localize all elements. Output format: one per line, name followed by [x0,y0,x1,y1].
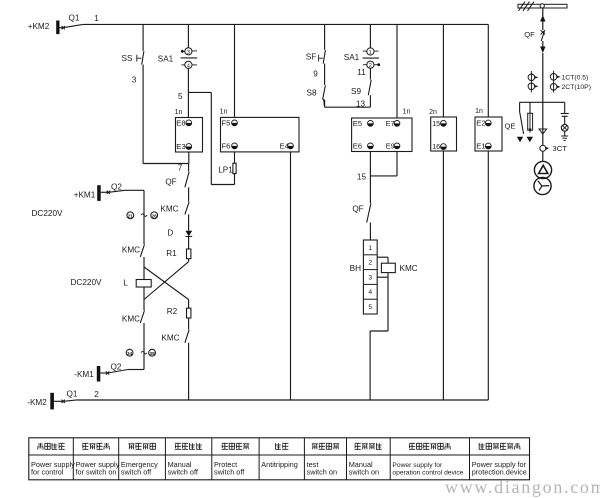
svg-text:28: 28 [152,213,158,218]
svg-text:3: 3 [132,76,137,85]
svg-text:E2: E2 [476,119,485,128]
table header col8 [355,443,361,450]
svg-text:SF: SF [306,52,316,61]
svg-text:-KM1: -KM1 [74,370,94,379]
table header col9 [409,443,415,450]
svg-text:3: 3 [368,274,372,281]
wire E7 to bus [396,24,398,118]
wire SA1 branch [187,24,189,47]
svg-text:E8: E8 [176,119,185,128]
svg-text:Power supply for: Power supply for [392,462,443,469]
svg-text:switch off: switch off [214,468,245,477]
svg-text:DC220V: DC220V [32,209,63,218]
svg-text:switch off: switch off [168,468,199,477]
wire node 7 down [188,164,190,172]
feeder wire [542,8,544,16]
table header col5 [222,443,228,450]
svg-text:E1: E1 [476,142,485,151]
svg-text:5: 5 [368,304,372,311]
svg-text:KMC: KMC [161,333,179,342]
svg-text:7: 7 [178,163,183,172]
svg-text:SS: SS [122,54,133,63]
svg-text:2: 2 [369,63,372,69]
wire 2n branch [442,24,444,117]
svg-text:+KM2: +KM2 [28,22,50,31]
svg-text:1: 1 [368,245,372,252]
svg-text:QE: QE [505,122,516,131]
plug terminals 34-38 [126,349,133,356]
svg-text:2n: 2n [429,109,437,116]
CT pair left [530,71,532,92]
CT pair right 1CT/2CT [553,71,555,93]
svg-text:protection.device: protection.device [472,468,527,477]
fuse link [529,102,531,113]
svg-text:D: D [167,229,173,238]
svg-text:13: 13 [356,99,366,108]
table header col3 [128,444,134,450]
svg-text:switch on: switch on [307,468,337,477]
wire SF branch [324,24,326,49]
svg-text:38: 38 [149,351,155,356]
wire E1 down [487,151,489,400]
svg-text:3: 3 [187,50,190,56]
svg-text:F6: F6 [222,142,231,151]
svg-text:15: 15 [357,172,367,181]
wire cross link R1 to L branch [144,262,189,300]
svg-text:for switch on: for switch on [76,468,117,477]
svg-text:R1: R1 [166,249,177,258]
svg-text:QF: QF [524,30,535,39]
svg-text:+KM1: +KM1 [74,190,96,199]
svg-text:Antitripping: Antitripping [261,460,298,469]
svg-text:21: 21 [128,213,134,218]
svg-text:1n: 1n [220,108,228,115]
table header col6 [276,443,281,450]
svg-text:operation control device: operation control device [392,470,463,477]
svg-text:1: 1 [94,14,99,23]
svg-text:QF: QF [165,177,176,186]
svg-text:E3: E3 [176,142,185,151]
svg-text:KMC: KMC [400,264,418,273]
junction wire [520,101,565,103]
svg-text:KMC: KMC [122,245,140,254]
legend table [29,438,530,480]
breaker QF drawout symbol [540,15,545,22]
table header col1 [38,443,43,450]
plug terminals 21-28 [127,212,134,219]
svg-text:2: 2 [94,390,99,399]
svg-text:1n: 1n [403,108,411,115]
svg-text:switch on: switch on [349,468,379,477]
svg-text:34: 34 [127,351,133,356]
svg-text:SA1: SA1 [158,55,174,64]
table header col7 [312,444,318,450]
table header col4 [175,443,181,450]
wire BH return to bus [370,330,388,332]
watermark [445,477,600,498]
svg-text:for control: for control [31,468,64,477]
transformer T [534,161,551,178]
svg-text:E4: E4 [280,142,289,151]
svg-text:E7: E7 [386,119,395,128]
svg-text:S9: S9 [351,87,361,96]
wire F5 branch [234,24,236,117]
svg-text:R2: R2 [167,307,178,316]
svg-text:5: 5 [178,92,183,101]
svg-text:1n: 1n [475,108,483,115]
svg-text:1: 1 [369,50,372,56]
knife switch Q1 bottom [54,400,63,402]
svg-text:2: 2 [368,260,372,267]
svg-text:4: 4 [368,289,372,296]
svg-text:Q1: Q1 [69,14,80,23]
svg-text:F5: F5 [222,119,231,128]
wire SS branch [142,24,144,50]
svg-text:E5: E5 [353,119,362,128]
svg-text:BH: BH [350,264,361,273]
svg-text:1n: 1n [175,109,183,116]
svg-text:2CT(10P): 2CT(10P) [562,84,591,91]
svg-text:QF: QF [352,205,363,214]
wire E2 branch [487,24,489,117]
surge arrester branch [564,102,566,113]
svg-text:11: 11 [357,68,366,77]
wire KM1 column [143,190,145,244]
table header col10 [479,443,484,450]
svg-text:Q1: Q1 [67,390,78,399]
svg-text:E9: E9 [386,142,395,151]
svg-text:9: 9 [313,70,318,79]
wire E3 to node 7 [188,152,190,164]
CT 3CT [540,145,546,151]
svg-text:E6: E6 [353,142,362,151]
svg-text:15: 15 [432,119,440,128]
wire node 13 [325,106,371,108]
svg-text:switch off: switch off [121,468,152,477]
knife switch Q2 top [101,191,109,193]
svg-text:S8: S8 [306,88,316,97]
wire bottom bus node 2 [77,399,488,401]
svg-text:DC220V: DC220V [71,278,102,287]
wire 16 down [442,151,444,400]
wire top bus node 1 [83,23,488,25]
knife switch Q1 top [60,27,64,29]
wire node 3 [142,65,144,164]
busbar [518,4,567,8]
wire cross link to R2 branch [144,267,189,300]
svg-text:LP1: LP1 [218,166,233,175]
table header col2 [82,443,88,450]
wire node 15 [369,152,371,176]
svg-text:SA1: SA1 [344,53,360,62]
svg-text:-KM2: -KM2 [27,398,47,407]
svg-text:3CT: 3CT [553,144,568,153]
svg-text:KMC: KMC [122,315,140,324]
wire to node 7 [143,163,188,165]
svg-text:KMC: KMC [160,205,178,214]
svg-text:16: 16 [432,142,440,151]
wire E4 down [290,152,292,400]
wire SA1 right branch [369,24,371,48]
isolating contact symbol [539,129,547,134]
svg-text:1CT(0.5): 1CT(0.5) [562,74,589,81]
wire node 5 [187,69,189,118]
svg-text:Q2: Q2 [111,182,122,191]
svg-text:L: L [123,279,128,288]
